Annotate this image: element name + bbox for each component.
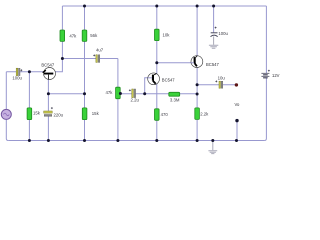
- node 47k R5 tap: [119, 92, 122, 95]
- node rail 15k R3: [28, 139, 31, 142]
- resistor R1 47k: [60, 30, 65, 41]
- node Q3 base: [155, 61, 158, 64]
- capacitor C1 100u input: [16, 68, 22, 75]
- node A 47k/4u7/Q1 collector: [61, 57, 64, 60]
- wire B feedback horizontal: [120, 93, 197, 95]
- node rail 220u: [47, 139, 50, 142]
- wire Vo ground stub: [236, 121, 238, 141]
- ground top (below 100u): [209, 36, 218, 48]
- capacitor C4 2.2u: [129, 89, 136, 98]
- capacitor C6 100u decoupling electrolytic: [211, 27, 218, 37]
- wire 47k R1 column top: [61, 6, 63, 59]
- wire Q1 collector L: [54, 59, 62, 72]
- resistor R2 56k: [82, 30, 87, 41]
- node rail ground: [211, 139, 214, 142]
- node Q1 emitter: [47, 92, 50, 95]
- svg-text:10u: 10u: [218, 75, 226, 80]
- wire A emitter Q1: [48, 93, 84, 95]
- wire Q2 base riser: [145, 78, 149, 94]
- svg-text:15k: 15k: [92, 111, 100, 116]
- node Q3 emitter output: [196, 83, 199, 86]
- svg-text:47k: 47k: [69, 33, 77, 38]
- wire mic column: [6, 72, 8, 141]
- ground bottom: [208, 141, 217, 154]
- svg-text:3.3M: 3.3M: [170, 98, 180, 103]
- node input base Q1: [28, 70, 31, 73]
- svg-text:2.2u: 2.2u: [131, 97, 140, 102]
- transistor Q1 BC547: [43, 68, 56, 80]
- wire 56k column: [84, 6, 86, 94]
- svg-text:10k: 10k: [163, 32, 171, 37]
- svg-text:100u: 100u: [218, 31, 228, 36]
- transistor Q3 BC547: [191, 56, 203, 68]
- svg-text:220u: 220u: [54, 112, 64, 117]
- svg-text:2.2k: 2.2k: [200, 112, 209, 117]
- resistor R7 470: [155, 109, 160, 121]
- svg-text:BC547: BC547: [206, 62, 219, 67]
- wire input left horizontal: [6, 71, 44, 73]
- node rail 470: [155, 139, 158, 142]
- svg-text:4u7: 4u7: [96, 48, 104, 53]
- wire Q3 collector column: [196, 6, 198, 57]
- resistor R8 2.2k: [195, 108, 200, 120]
- svg-text:BC547: BC547: [162, 78, 175, 83]
- node rail 2.2k: [196, 139, 199, 142]
- wire 100u decoupling column: [213, 6, 215, 32]
- resistor R4 15k: [82, 108, 87, 120]
- svg-text:56k: 56k: [90, 33, 98, 38]
- capacitor C2 4u7: [93, 54, 100, 62]
- microphone source: [1, 109, 11, 119]
- svg-text:Vo: Vo: [235, 102, 241, 107]
- wire battery column: [264, 6, 266, 141]
- wire Q3 emitter column: [196, 67, 198, 141]
- wire 10k column / Q2 collector: [156, 6, 158, 75]
- resistor R3 15k: [27, 108, 32, 120]
- node rail 47k R5: [116, 139, 119, 142]
- wire Q3 base from node: [157, 62, 194, 64]
- resistor R5 47k: [116, 87, 121, 99]
- svg-text:15k: 15k: [33, 111, 41, 116]
- node rail 15k R4: [83, 139, 86, 142]
- capacitor C3 220u: [44, 107, 53, 116]
- resistor R9 3.3M horizontal: [169, 92, 180, 96]
- wire 47k R5 column: [117, 59, 119, 141]
- node Q2 base: [143, 92, 146, 95]
- capacitor C5 10u: [215, 80, 223, 88]
- wire bottom rail: [8, 140, 264, 142]
- node rail Vo stub: [235, 139, 238, 142]
- node top rail 56k: [83, 5, 86, 8]
- svg-text:470: 470: [161, 112, 169, 117]
- node top rail 10k: [155, 5, 158, 8]
- wire Q1 emitter down: [47, 79, 49, 140]
- node Vo stub top terminal: [235, 119, 238, 122]
- battery B1 12V: [261, 70, 270, 78]
- wire 15k R4 column: [84, 94, 86, 141]
- wire 15k R3 column: [28, 72, 30, 141]
- node 56k/15k: [83, 92, 86, 95]
- wire Q2 emitter down: [156, 84, 158, 141]
- wire C output to 10u: [197, 84, 236, 86]
- node Q3 emitter feedback: [196, 93, 199, 96]
- resistor R6 10k: [155, 29, 160, 40]
- node top rail Q3 collector: [196, 5, 199, 8]
- svg-text:BC547: BC547: [41, 62, 54, 67]
- svg-text:100u: 100u: [12, 76, 22, 81]
- node top rail 100u: [212, 5, 215, 8]
- svg-text:47k: 47k: [105, 90, 113, 95]
- wire top rail: [62, 5, 266, 7]
- node Vo output terminal: [235, 83, 238, 86]
- svg-text:12V: 12V: [272, 73, 280, 78]
- wire node A horizontal to 4u7: [62, 58, 118, 60]
- transistor Q2 BC547: [148, 73, 160, 85]
